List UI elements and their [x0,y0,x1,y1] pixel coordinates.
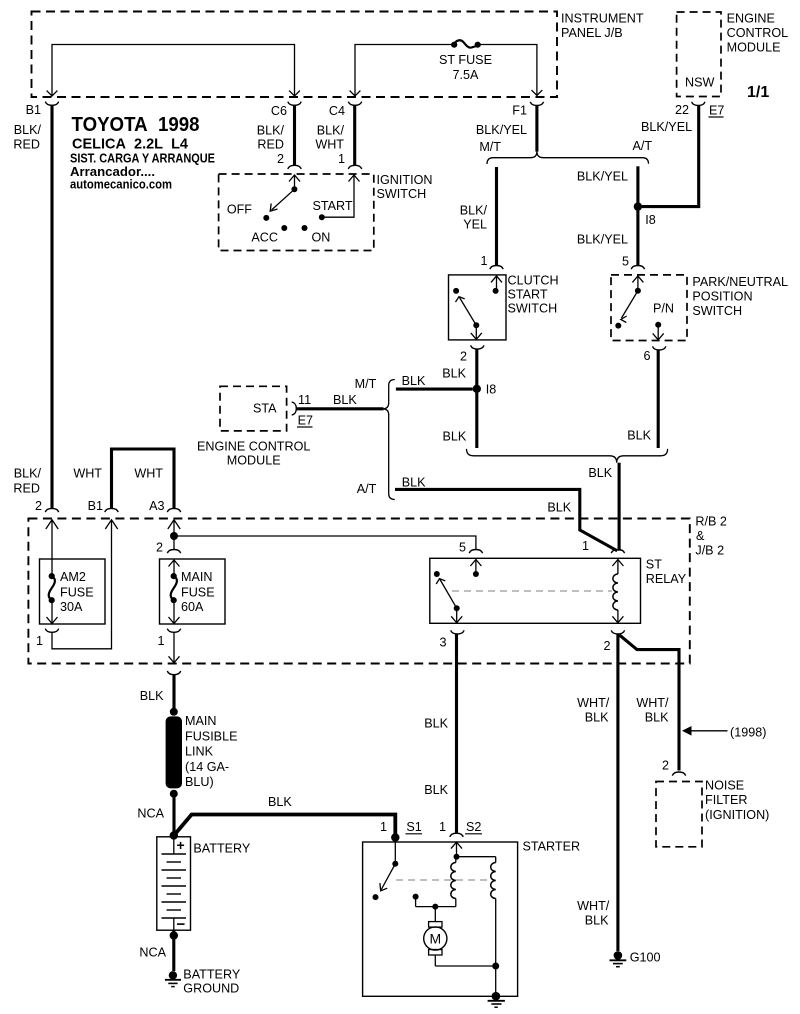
svg-text:5: 5 [622,255,629,269]
starter internal dashed line [396,879,491,881]
svg-text:2: 2 [460,350,467,364]
svg-text:&: & [696,529,705,543]
svg-text:BLK: BLK [333,393,357,407]
connector 2 below clutch switch [442,345,484,380]
svg-text:PARK/NEUTRAL: PARK/NEUTRAL [692,275,788,289]
svg-text:CONTROL: CONTROL [727,26,789,40]
junction I8 (BLK) [473,383,497,397]
arrow up into R/B at A3 [168,520,180,529]
svg-text:BLK: BLK [424,717,448,731]
svg-text:STA: STA [253,402,277,416]
instrument panel J/B box [32,12,558,98]
main fusible link [166,708,238,798]
svg-text:(IGNITION): (IGNITION) [705,808,769,822]
wire battery to ground (NCA) [139,930,178,971]
svg-text:ST FUSE: ST FUSE [439,53,492,67]
svg-text:START: START [313,199,353,213]
wire P/N 6 down to brace (BLK) [627,350,658,448]
title text block [70,113,215,192]
svg-text:BLU): BLU) [185,775,214,789]
svg-text:5: 5 [459,541,466,555]
svg-text:BATTERY: BATTERY [193,842,251,856]
svg-text:BLK/YEL: BLK/YEL [641,120,692,134]
wire M/T BLK/YEL to clutch switch [460,167,497,268]
svg-text:YEL: YEL [463,218,487,232]
starter box [363,842,518,996]
svg-text:E7: E7 [298,414,313,428]
svg-text:F1: F1 [512,104,527,118]
wire MAIN fuse to R/B bottom edge [169,632,180,663]
starter motor M [424,922,496,966]
svg-text:+: + [177,837,185,853]
wire relay pin 2 to G100 (WHT/BLK) [577,634,618,951]
wire E7 NSW down to I8 junction (BLK/YEL) [642,106,699,207]
connector 1 below AM2 fuse [36,629,59,648]
arrow down at C6 inside J/B [289,91,300,96]
wire brace to relay pin 1 (BLK) [588,463,619,551]
R/B 2 & J/B 2 label [695,515,727,558]
svg-text:FUSE: FUSE [181,586,215,600]
instrument panel J/B label [561,12,644,41]
(1998) callout arrow [682,726,766,740]
noise filter box [656,782,702,847]
svg-text:BLK/YEL: BLK/YEL [577,170,628,184]
battery ground symbol [165,968,241,996]
svg-text:BLK: BLK [402,476,426,490]
ignition switch box [219,174,374,251]
svg-text:RED: RED [13,138,40,152]
starter solenoid windings [451,842,496,907]
brace M/T A/T at STA output [383,380,395,500]
park/neutral position switch box [611,275,687,341]
wire B1 to C6 inside J/B [52,45,295,96]
svg-text:P/N: P/N [653,302,674,316]
svg-text:BLK: BLK [645,711,669,725]
ignition switch label [377,173,433,201]
svg-text:BLK/: BLK/ [460,204,488,218]
svg-text:CLUTCH: CLUTCH [508,274,559,288]
svg-text:BLK: BLK [442,430,466,444]
svg-text:J/B 2: J/B 2 [695,544,724,558]
wire clutch 2 to I8 junction (BLK) [475,349,478,388]
svg-text:BATTERY: BATTERY [183,968,241,982]
svg-text:PANEL J/B: PANEL J/B [561,26,623,40]
ignition switch internals [227,175,360,245]
svg-text:BLK: BLK [402,374,426,388]
svg-text:60A: 60A [181,600,204,614]
ground G100 [610,951,661,967]
svg-text:NCA: NCA [139,946,166,960]
svg-text:SWITCH: SWITCH [377,187,427,201]
svg-text:11: 11 [298,393,311,407]
connector A3 (R/B top) [149,499,181,513]
svg-text:BLK/YEL: BLK/YEL [476,123,527,137]
svg-text:GROUND: GROUND [183,982,239,996]
clutch start switch box [449,275,507,340]
starter ground wire [492,899,499,997]
svg-text:STARTER: STARTER [523,840,581,854]
wire battery to starter S1 (BLK cable) [174,815,395,838]
svg-text:2: 2 [156,541,163,555]
svg-text:BLK: BLK [588,466,612,480]
wire fusible link to battery (NCA) [137,794,174,835]
svg-text:I8: I8 [486,383,497,397]
svg-text:2: 2 [277,152,284,166]
svg-text:M/T: M/T [479,140,501,154]
relay pin 5 lead [470,560,481,578]
svg-text:ON: ON [312,231,331,245]
junction I8 (BLK/YEL) [634,202,656,227]
svg-text:2: 2 [603,639,610,653]
svg-text:OFF: OFF [227,203,252,217]
svg-text:BLK/YEL: BLK/YEL [577,233,628,247]
clutch switch internals [453,276,502,340]
svg-text:BLK/: BLK/ [257,124,285,138]
ECM STA caption [197,440,310,468]
junction dot at battery positive [170,831,178,839]
svg-text:WHT: WHT [315,138,344,152]
svg-text:BLK: BLK [268,795,292,809]
connector 1 above ignition switch [348,165,361,169]
svg-text:1: 1 [36,634,43,648]
connector B1 (R/B top) [88,499,119,513]
wire B1 down left side (BLK/RED) [50,105,53,509]
wire C4 to ignition switch [353,105,356,165]
svg-text:ACC: ACC [251,231,278,245]
wire STA to brace (BLK) [296,393,383,409]
ST relay label [646,558,687,587]
connector 2 above noise filter [662,759,686,776]
connector 2 below relay coil [603,630,624,653]
svg-text:G100: G100 [630,951,661,965]
svg-text:START: START [508,288,548,302]
ECM NSW box (top right) [677,12,721,97]
svg-text:TOYOTA 1998: TOYOTA 1998 [72,113,200,136]
relay coil [612,560,623,623]
wire I8 down to brace (BLK) [442,389,476,448]
AM2 fuse 30A [40,559,106,624]
ECM STA box [220,386,287,431]
svg-text:RELAY: RELAY [646,572,687,586]
svg-text:1: 1 [480,254,487,268]
wire relay pin 3 to starter S2 (BLK) [424,634,456,833]
connector F1 (J/B) [476,102,544,137]
svg-text:1: 1 [439,820,446,834]
connector 1 above relay coil [582,539,625,553]
ST fuse 7.5A [439,40,492,82]
svg-text:NOISE: NOISE [705,779,744,793]
connector C6 (J/B) [257,102,302,166]
svg-text:1: 1 [380,820,387,834]
junction dot 2 above MAIN fuse [156,532,178,555]
svg-text:1: 1 [582,539,589,553]
P/N switch internals [615,276,674,340]
connector B1 (J/B) [13,102,58,152]
svg-text:WHT/: WHT/ [577,899,610,913]
park/neutral label [692,275,788,318]
svg-text:(1998): (1998) [730,726,766,740]
svg-text:BLK/: BLK/ [14,123,42,137]
svg-text:BLK: BLK [424,783,448,797]
connector 5 above relay [459,541,483,555]
svg-text:ENGINE: ENGINE [727,12,775,26]
svg-text:SWITCH: SWITCH [508,302,558,316]
starter motor branch wires [413,894,456,922]
svg-text:LINK: LINK [185,745,214,759]
arrow down at C4 inside J/B [350,91,361,96]
svg-text:1: 1 [157,634,164,648]
starter S1 switch contacts [373,838,399,901]
svg-text:WHT/: WHT/ [636,696,669,710]
wire A3 to junction 2 [173,520,175,550]
svg-text:FUSIBLE: FUSIBLE [185,730,238,744]
svg-text:RED: RED [257,138,284,152]
svg-text:S2: S2 [466,820,481,834]
connector C4 (J/B) [315,102,361,166]
connector below R/B edge (to fusible link) [167,671,180,675]
wire A/T BLK/YEL to I8 junction [577,166,638,206]
connector 1 below MAIN fuse [157,629,180,648]
wire A/T BLK from STA to relay pin 1 [395,489,617,550]
svg-text:22: 22 [675,103,689,117]
svg-text:BLK/: BLK/ [317,124,345,138]
svg-text:FILTER: FILTER [705,793,747,807]
svg-text:6: 6 [643,349,650,363]
svg-text:POSITION: POSITION [692,290,752,304]
arrow down at F1 inside J/B [532,90,543,95]
wire C4 to ST fuse to F1 inside J/B [355,45,537,96]
svg-text:BLK: BLK [585,914,609,928]
svg-text:MODULE: MODULE [227,454,281,468]
wire relay pin 2 to noise filter (WHT/BLK) [620,635,680,771]
svg-text:30A: 30A [60,600,83,614]
connector S2 [439,820,482,837]
svg-text:WHT: WHT [73,467,102,481]
starter ground symbol [488,992,505,1007]
svg-text:R/B 2: R/B 2 [695,515,727,529]
svg-text:A3: A3 [149,499,164,513]
svg-text:BLK: BLK [585,711,609,725]
wire F1 down to brace [535,106,538,152]
svg-text:1/1: 1/1 [747,84,769,101]
svg-text:ST: ST [646,558,662,572]
wire R/B to fusible link (BLK) [140,675,174,712]
svg-text:A/T: A/T [633,139,653,153]
label WHT/BLK (noise filter wire) [636,696,669,725]
svg-text:NSW: NSW [685,76,714,90]
svg-text:BLK: BLK [547,501,571,515]
svg-text:RED: RED [13,482,40,496]
connector 6 below P/N switch [643,346,665,363]
svg-text:automecanico.com: automecanico.com [70,177,172,192]
svg-text:(14 GA-: (14 GA- [185,760,229,774]
relay switch contacts [434,571,462,623]
svg-text:WHT/: WHT/ [577,696,610,710]
svg-text:SWITCH: SWITCH [692,304,742,318]
wire junction 2 to relay pin 5 [174,536,476,550]
relay internal dashed line [452,590,612,592]
svg-text:AM2: AM2 [60,570,86,584]
svg-text:FUSE: FUSE [60,586,94,600]
ECM label [727,12,789,55]
svg-text:BLK: BLK [627,429,651,443]
svg-text:MODULE: MODULE [727,41,781,55]
connector 2 above MAIN fuse [167,550,180,554]
svg-text:B1: B1 [26,103,41,117]
svg-text:BLK: BLK [442,367,466,381]
svg-text:A/T: A/T [357,482,377,496]
svg-text:MAIN: MAIN [181,570,212,584]
arrow down at B1 inside J/B [47,91,58,96]
brace M/T A/T under F1 [487,151,649,164]
connector 3 below relay [439,630,464,649]
svg-text:M: M [429,931,441,947]
svg-text:E7: E7 [709,104,724,118]
connector 2 (R/B top left) [13,467,58,514]
svg-text:BLK/: BLK/ [14,467,42,481]
svg-text:2: 2 [35,499,42,513]
svg-text:I8: I8 [645,213,656,227]
connector E7 pin 22 (ECM) [675,102,724,118]
wire B1 loop inside R/B [52,520,112,649]
connector 2 above ignition switch [288,165,301,169]
svg-text:C4: C4 [329,104,345,118]
svg-text:NCA: NCA [137,807,164,821]
svg-text:INSTRUMENT: INSTRUMENT [561,12,644,26]
wire M/T BLK from STA to I8 [396,374,473,389]
svg-text:S1: S1 [406,820,421,834]
battery [157,837,251,933]
connector 1 above clutch switch [490,266,503,270]
clutch start switch label [508,274,559,316]
brace under clutch and P/N switches [467,449,668,463]
junction S1 [380,820,422,842]
noise filter label [705,779,769,823]
svg-text:MAIN: MAIN [185,714,216,728]
svg-text:BLK: BLK [140,689,164,703]
svg-text:1: 1 [338,152,345,166]
arrow up into R/B at B1 [105,520,117,529]
svg-text:IGNITION: IGNITION [377,173,433,187]
svg-text:M/T: M/T [355,377,377,391]
connector 5 above P/N switch [631,266,644,270]
connector E7 pin 11 (STA) [292,393,313,428]
MAIN fuse 60A [160,559,226,624]
svg-text:−: − [177,916,186,933]
svg-text:3: 3 [439,636,446,650]
ST relay box [430,558,641,623]
svg-text:2: 2 [662,759,669,773]
WHT loop wire above R/B [73,449,174,508]
svg-text:ENGINE CONTROL: ENGINE CONTROL [197,440,310,454]
svg-text:B1: B1 [88,499,103,513]
svg-text:7.5A: 7.5A [453,68,480,82]
svg-text:C6: C6 [271,104,287,118]
svg-text:WHT: WHT [134,467,163,481]
wire I8 to park/neutral switch (BLK/YEL) [577,207,638,269]
R/B 2 and J/B 2 box [28,519,689,664]
wire 2 to AM2 fuse [51,520,53,559]
arrow up into R/B at 2 [46,520,58,529]
wire C6 to ignition switch [293,105,296,165]
